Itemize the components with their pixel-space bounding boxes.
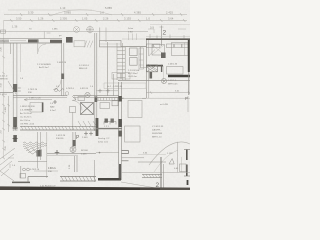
- door arc middle divider: [53, 80, 61, 90]
- left apartment lower wall double hline: [0, 92, 13, 94]
- dark furniture blob: [161, 53, 166, 59]
- text rows bottom of corridor: [98, 137, 110, 144]
- door scribble symbol: [55, 89, 64, 92]
- bracket marks near center wall: [104, 122, 116, 125]
- left room divider wall vertical double: [12, 43, 14, 131]
- svg-text:1.385: 1.385: [52, 29, 58, 31]
- svg-text:0.9/2.26: 0.9/2.26: [80, 88, 89, 90]
- door frame ticks: [44, 32, 50, 40]
- svg-text:3.135: 3.135: [124, 17, 131, 21]
- vertical line right of blob: [46, 132, 48, 178]
- room 2.1 label: [37, 64, 51, 69]
- extra room text: [57, 62, 67, 64]
- right lower hline: [142, 97, 190, 99]
- hatch marks above band: [78, 121, 96, 126]
- cross mark 1: [13, 126, 18, 131]
- kitchen text block: [128, 69, 140, 78]
- right exterior wall vertical dark: [188, 40, 190, 72]
- svg-text:1.0: 1.0: [146, 17, 150, 21]
- svg-text:a=1.435: a=1.435: [160, 104, 169, 106]
- svg-text:DACHFL.: DACHFL.: [152, 129, 162, 132]
- top dimension chain line 1: [8, 9, 92, 11]
- room divider right apt (dark hline): [146, 65, 163, 67]
- hline above step: [34, 170, 58, 172]
- window lines in top wall: [10, 40, 26, 42]
- section circle bottom: [70, 146, 76, 153]
- tiny box at left line end: [1, 30, 6, 33]
- svg-text:1.05: 1.05: [82, 17, 88, 21]
- svg-text:RC300: RC300: [81, 150, 89, 152]
- svg-text:1.435: 1.435: [81, 154, 87, 156]
- left margin small text a: [0, 76, 24, 81]
- kitchen right wall line: [140, 47, 142, 68]
- svg-text:BRH.90: BRH.90: [0, 79, 8, 81]
- dark blob left mid: [37, 150, 42, 157]
- stair left wall: [107, 42, 109, 96]
- inner faint arc: [154, 150, 178, 172]
- hatched band bottom right: [142, 174, 162, 177]
- dark stub bottom right: [187, 180, 189, 185]
- left inner dim vertical: [8, 96, 10, 132]
- vertical wall mid: [113, 74, 115, 96]
- Gr2 text box: [104, 83, 146, 88]
- stair top landing boxes: [112, 73, 121, 80]
- svg-text:0.9/2: 0.9/2: [128, 32, 134, 34]
- box right: [180, 164, 187, 172]
- cross mark 2: [13, 136, 18, 141]
- bottom scan bar: [0, 186, 190, 190]
- vertical line x94 bottom: [94, 160, 96, 182]
- section circle corridor: [85, 92, 90, 97]
- svg-text:2.26: 2.26: [103, 17, 109, 21]
- svg-text:1.385/2.26 F30: 1.385/2.26 F30: [20, 106, 35, 108]
- svg-text:Gr 2 : 5.28/2.64: Gr 2 : 5.28/2.64: [107, 85, 123, 88]
- svg-text:2.425: 2.425: [166, 11, 173, 15]
- center wall dark segments: [118, 96, 122, 102]
- room text block (dense): [20, 106, 35, 126]
- kitchen unit boxes: [130, 48, 138, 56]
- svg-text:2.3 ZIMMER: 2.3 ZIMMER: [20, 110, 33, 112]
- vertical wall stub under P: [72, 132, 74, 148]
- dim marks above wc (hatched band): [97, 97, 119, 99]
- left wall end cap: [0, 40, 9, 43]
- tiny dim texts above wall: [29, 29, 58, 31]
- Gr2 landing: upper hline: [118, 80, 190, 82]
- svg-text:2: 2: [163, 30, 167, 37]
- thin long hline bottom: [121, 171, 190, 173]
- right exterior top wall (dark): [146, 38, 190, 40]
- svg-text:2.2 KÜCHE: 2.2 KÜCHE: [128, 69, 140, 72]
- long vertical wall (center) double: [118, 82, 120, 180]
- right notes text block: [152, 126, 164, 139]
- bottom right walls: hline: [138, 161, 166, 163]
- svg-text:0.76/2.26: 0.76/2.26: [30, 169, 40, 171]
- shower crossed rect: [81, 103, 94, 115]
- small marks left: [8, 158, 14, 168]
- small hline at kitchen bottom: [141, 67, 148, 69]
- svg-text:BRH 0.45: BRH 0.45: [168, 84, 178, 86]
- faint hline right upper: [150, 24, 190, 26]
- bottom middle: hline: [96, 152, 119, 154]
- hline below Gr2: [96, 90, 118, 92]
- svg-text:2.45/2.26: 2.45/2.26: [57, 62, 67, 64]
- svg-text:1.76/2.26: 1.76/2.26: [28, 89, 38, 91]
- left rotated dim text: [1, 46, 8, 150]
- long horizontal line above wall: [0, 31, 148, 33]
- right bottom vertical marks: [163, 164, 165, 190]
- big square room (light well) upper: [128, 101, 142, 118]
- narrow shelf strip: [139, 48, 143, 69]
- svg-text:2.46/1.36: 2.46/1.36: [168, 64, 178, 66]
- small text above band: [28, 89, 38, 94]
- sink box: [70, 107, 76, 113]
- dark box on wall (stove symbol): [66, 37, 73, 43]
- divider wall dark patch: [13, 84, 17, 92]
- dark right bracket lower: [186, 165, 188, 177]
- faint hline + dim text: [138, 154, 166, 156]
- right apt: left wall double: [145, 40, 147, 98]
- dim hline with arrow lower-left room: [24, 99, 52, 101]
- top leader arc: [50, 10, 112, 16]
- svg-text:2.0x1.0: 2.0x1.0: [0, 76, 8, 78]
- small counter rect right of box: [74, 41, 85, 47]
- small annotation block above kitchen: [128, 28, 134, 34]
- svg-text:lichte 1.01: lichte 1.01: [98, 141, 109, 144]
- dark vertical bar left of bath wall: [96, 118, 99, 136]
- vertical of L: [119, 164, 121, 180]
- right apt door leaf: [149, 50, 155, 57]
- room S label: [79, 65, 90, 70]
- door leaf diagonal: [8, 81, 16, 94]
- diagonal to corner bottom: [121, 182, 168, 190]
- left texts bottom: [30, 168, 57, 173]
- hatch marks near counter: [84, 41, 93, 48]
- dark bar under step: [12, 182, 30, 184]
- small triangle mark: [169, 159, 174, 165]
- svg-text:Durchg. 2.2: Durchg. 2.2: [98, 137, 110, 140]
- left exterior top wall upper face: [0, 38, 62, 40]
- svg-text:1.36: 1.36: [12, 25, 18, 29]
- svg-text:BRH 1.10: BRH 1.10: [152, 137, 162, 139]
- svg-text:2.305: 2.305: [60, 17, 67, 21]
- big door arc bottom right (dome): [149, 142, 190, 165]
- svg-text:0.9/2.2: 0.9/2.2: [48, 168, 55, 170]
- vertical tick below wall: [37, 39, 39, 54]
- dimension ticks row3: [10, 13, 185, 22]
- dim text right bottom: [167, 153, 179, 170]
- svg-text:3.885: 3.885: [64, 11, 71, 15]
- box small: [20, 174, 26, 179]
- section circle right: [161, 78, 166, 83]
- svg-text:2.0: 2.0: [100, 11, 104, 15]
- hline under blob: [18, 161, 47, 163]
- svg-text:V 2.01/1.35: V 2.01/1.35: [152, 126, 164, 128]
- small marks above right wall: [148, 29, 186, 33]
- small oo symbols: [23, 168, 26, 171]
- dot: [99, 152, 101, 154]
- bracket steps right of center wall: [122, 151, 129, 154]
- bed: [172, 43, 189, 56]
- svg-text:1.26: 1.26: [38, 17, 44, 21]
- hline mid bottom: [47, 152, 96, 154]
- staircase rungs: [117, 43, 125, 80]
- plus mark under corridor: [53, 100, 57, 104]
- vertical lines near blob: [38, 132, 41, 168]
- hline between shaft and right apt: [121, 46, 146, 48]
- svg-text:3.64: 3.64: [168, 17, 174, 21]
- middle divider wall vertical double: [61, 43, 63, 96]
- svg-text:2.469: 2.469: [82, 137, 88, 139]
- right small text under wall: [168, 80, 178, 86]
- bath fixtures: door arc: [72, 101, 82, 111]
- svg-text:U=11.0m: U=11.0m: [128, 76, 137, 78]
- corridor door dim texts: [56, 86, 94, 90]
- svg-text:0.76/2.0: 0.76/2.0: [66, 88, 75, 90]
- hatched wall band continues right: [96, 128, 122, 130]
- left edge extra ticks: [2, 104, 10, 159]
- big square room (light well) lower: [125, 126, 141, 142]
- dimension numbers top: [12, 6, 174, 30]
- annotation ticks: [129, 34, 137, 41]
- dense scribble blob (planting): [23, 142, 47, 154]
- arc radius vertical line: [177, 142, 179, 173]
- dark right bracket upper: [186, 150, 188, 161]
- right vertical wall w/ gaps: [160, 157, 162, 190]
- svg-text:5.885: 5.885: [105, 6, 112, 10]
- vertical line inside: [72, 112, 74, 130]
- small circle near corridor door: [65, 92, 69, 96]
- svg-text:FENSTER: FENSTER: [152, 133, 163, 135]
- hatched wall band left (textured): [20, 126, 96, 130]
- mid text under band: [56, 135, 66, 140]
- wide stub at T-junction: [9, 43, 11, 54]
- svg-text:BAD: BAD: [50, 106, 55, 109]
- text block bottom far left: [48, 168, 55, 170]
- faint vertical right of divider: [163, 66, 165, 84]
- section marker circle 2: [74, 27, 80, 33]
- top dimension chain line 3: [4, 20, 187, 22]
- left exterior top wall lower face: [0, 42, 62, 44]
- corridor wall hline: [13, 95, 67, 97]
- svg-text:1.385 / 2.26: 1.385 / 2.26: [29, 98, 41, 100]
- svg-text:H= 2.50 m: H= 2.50 m: [20, 120, 30, 122]
- shaft inner line: [100, 43, 122, 45]
- vertical shaft wall left: [99, 28, 101, 41]
- extra faint vertical near divider: [20, 44, 22, 72]
- svg-text:4.1m²: 4.1m²: [50, 109, 56, 112]
- svg-text:4.385: 4.385: [134, 11, 141, 15]
- RC text: [81, 150, 89, 156]
- dark marks left of it: [150, 72, 153, 79]
- faint vertical right dims: [181, 157, 183, 172]
- hatched window band bottom center: [60, 176, 96, 181]
- small rect below band: [112, 101, 118, 106]
- wall dark fill segment B: [50, 40, 62, 43]
- small door arc entry: [38, 44, 46, 52]
- door stub on middle divider: [61, 74, 64, 80]
- stair diagonal hatch bottom-left: [0, 148, 15, 176]
- left vertical dimension line: [3, 20, 5, 158]
- svg-text:A= 15.28 m²: A= 15.28 m²: [20, 112, 32, 115]
- svg-text:P: P: [185, 96, 188, 101]
- svg-text:5.30: 5.30: [28, 11, 34, 15]
- small box on corridor wall: [78, 97, 85, 101]
- vertical double below: [73, 156, 75, 172]
- plus marks bottom-left: [55, 150, 60, 155]
- left door text: [0, 94, 7, 96]
- vertical line x20 bottom: [20, 166, 22, 178]
- svg-text:F30 RS: F30 RS: [56, 138, 64, 140]
- svg-text:BRH 0.9: BRH 0.9: [79, 68, 88, 70]
- bath wall dark junction: [94, 97, 97, 103]
- hatched cabinet: [147, 65, 158, 72]
- svg-text:OK FFB +2.64: OK FFB +2.64: [20, 124, 35, 126]
- svg-text:U= 16.20 m: U= 16.20 m: [20, 117, 32, 119]
- bottom middle L-wall dark: [98, 178, 121, 181]
- svg-text:1.135: 1.135: [167, 153, 173, 155]
- dark fill in divider lower: [13, 117, 17, 127]
- dark right edge of door square: [42, 103, 44, 113]
- svg-text:1.13: 1.13: [60, 6, 66, 10]
- plus marks row: [84, 132, 93, 136]
- divider vertical: [161, 65, 163, 72]
- table right: [167, 67, 184, 75]
- small door square: [30, 103, 43, 113]
- text small left of bath: [50, 103, 56, 112]
- wardrobe: [152, 45, 165, 56]
- axis line through 2: [161, 26, 163, 47]
- ticks above right wall: [150, 34, 184, 39]
- svg-text:1.01/2.26: 1.01/2.26: [56, 135, 66, 137]
- svg-text:2.1 WOHNEN: 2.1 WOHNEN: [37, 64, 51, 66]
- svg-text:S 2.45/1.0: S 2.45/1.0: [79, 65, 90, 67]
- right dim line mid: [146, 92, 190, 94]
- wc box: [100, 103, 110, 109]
- svg-text:A=21.5m²: A=21.5m²: [39, 66, 49, 69]
- radiator row under right wall: [147, 44, 189, 48]
- step outline left of L: [12, 177, 48, 182]
- section marker circle (flower): [86, 26, 94, 34]
- wall dark fill segment A: [28, 39, 39, 42]
- svg-text:1.0/2.0: 1.0/2.0: [0, 94, 7, 96]
- landing rectangle / shaft: [100, 41, 122, 47]
- thick dark wall segment right: [168, 75, 190, 77]
- svg-text:1 2 1: 1 2 1: [104, 126, 110, 128]
- bath wall vertical double: [94, 33, 96, 131]
- svg-text:3.50: 3.50: [16, 17, 22, 21]
- svg-text:1.385: 1.385: [5, 106, 7, 112]
- arrow tick: [72, 96, 76, 100]
- paper background: [0, 0, 190, 190]
- top dimension chain line 2: [4, 14, 187, 16]
- diagonal bottom left corner: [0, 171, 14, 181]
